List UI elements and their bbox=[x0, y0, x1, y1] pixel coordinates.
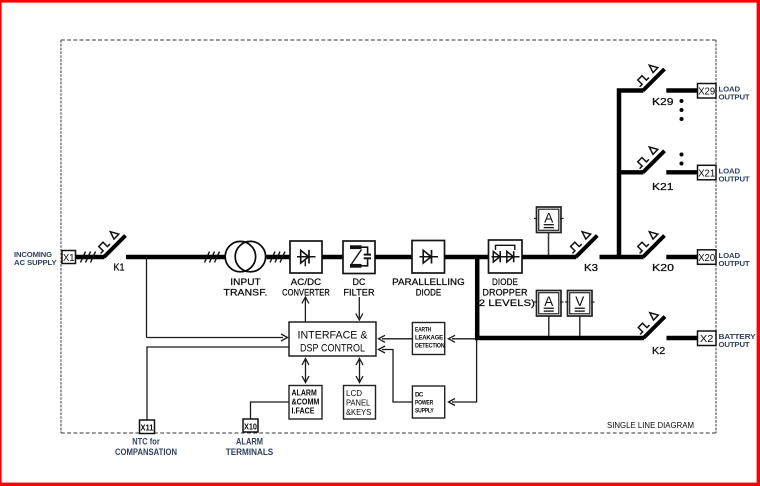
svg-text:K29: K29 bbox=[652, 96, 674, 108]
svg-text:K2: K2 bbox=[652, 345, 665, 357]
transformer T1 bbox=[225, 241, 265, 271]
wire: earth leakage to interface arrow bbox=[382, 338, 412, 340]
terminal X1 bbox=[62, 251, 76, 264]
svg-text:DROPPER: DROPPER bbox=[482, 288, 527, 298]
svg-text:EARTH: EARTH bbox=[415, 327, 432, 334]
svg-text:COMPANSATION: COMPANSATION bbox=[115, 447, 177, 458]
svg-text:X10: X10 bbox=[244, 422, 257, 432]
wire: K2 to X2 bbox=[667, 336, 699, 340]
DC filter box bbox=[343, 241, 375, 274]
svg-text:AC/DC: AC/DC bbox=[291, 277, 322, 287]
vertical load bus bbox=[619, 91, 644, 258]
wire: transformer to AC/DC converter bbox=[267, 255, 291, 259]
breaker K3 bbox=[568, 232, 597, 257]
svg-text:K20: K20 bbox=[652, 262, 674, 274]
svg-text:K3: K3 bbox=[584, 262, 598, 274]
wire: battery line to K2 bbox=[475, 336, 644, 341]
svg-text:INTERFACE &: INTERFACE & bbox=[298, 330, 368, 342]
terminal X11 bbox=[140, 420, 155, 434]
svg-text:OUTPUT: OUTPUT bbox=[719, 259, 751, 268]
parallelling diode box bbox=[412, 241, 445, 274]
wire: dc power supply to interface arrow bbox=[382, 350, 412, 403]
wire: dropper to K3 bbox=[522, 255, 576, 259]
svg-text:LCD: LCD bbox=[346, 388, 362, 398]
ammeter A top bbox=[534, 207, 564, 233]
alarm comm iface box bbox=[289, 386, 322, 420]
svg-text:X2: X2 bbox=[700, 333, 714, 345]
svg-text:X29: X29 bbox=[698, 86, 715, 98]
3-phase marks before transformer bbox=[205, 252, 220, 263]
svg-text:&KEYS: &KEYS bbox=[346, 407, 372, 417]
wire: K21 branch bbox=[617, 170, 644, 174]
voltmeter stem lower bbox=[579, 316, 581, 336]
diode dropper box bbox=[489, 240, 523, 273]
svg-text:OUTPUT: OUTPUT bbox=[719, 174, 751, 183]
dropper diodes and bypass bbox=[492, 245, 520, 262]
svg-text:X1: X1 bbox=[63, 252, 75, 264]
wire: converter control arrow (up) bbox=[304, 299, 306, 323]
ammeter stem lower bbox=[548, 316, 550, 336]
3-phase marks after transformer bbox=[270, 252, 285, 263]
wire: battery tap to earth leakage arrow bbox=[452, 338, 476, 340]
dashed diagram border bbox=[61, 40, 716, 433]
wire: K20 to X20 bbox=[666, 255, 698, 259]
DC filter LC glyph bbox=[350, 245, 371, 267]
breaker K29 bbox=[635, 65, 664, 90]
svg-text:A: A bbox=[544, 211, 553, 226]
svg-text:CONVERTER: CONVERTER bbox=[282, 288, 330, 298]
svg-text:I.FACE: I.FACE bbox=[292, 407, 315, 416]
svg-text:K1: K1 bbox=[114, 262, 125, 274]
terminal X21 bbox=[698, 165, 717, 180]
ammeter A lower bbox=[534, 291, 564, 317]
wire: filter to parallelling diode bbox=[375, 255, 412, 259]
svg-text:POWER: POWER bbox=[415, 400, 434, 407]
svg-text:INPUT: INPUT bbox=[230, 277, 261, 287]
svg-text:PARALLELLING: PARALLELLING bbox=[392, 277, 465, 287]
svg-text:ALARM: ALARM bbox=[236, 437, 263, 448]
ammeter stem top bbox=[548, 233, 550, 255]
voltmeter V lower bbox=[565, 291, 595, 317]
wire: K3 to K20 bbox=[600, 255, 644, 259]
svg-text:(2 LEVELS): (2 LEVELS) bbox=[475, 298, 535, 308]
wire: main AC bus X1 to K1 bbox=[76, 255, 105, 259]
terminal X20 bbox=[698, 250, 717, 264]
svg-text:DIODE: DIODE bbox=[416, 288, 442, 298]
interface / DSP control box bbox=[289, 322, 376, 356]
svg-text:DETECTION: DETECTION bbox=[415, 343, 445, 350]
svg-text:LEAKAGE: LEAKAGE bbox=[415, 335, 443, 342]
svg-text:K21: K21 bbox=[652, 181, 674, 193]
breaker K2 bbox=[636, 313, 665, 338]
wire: interface-LCD double arrow bbox=[356, 359, 363, 383]
svg-text:OUTPUT: OUTPUT bbox=[719, 93, 751, 102]
svg-text:&COMM: &COMM bbox=[292, 398, 320, 407]
3-phase marks after X1 bbox=[81, 252, 96, 263]
diode glyph in parallelling diode bbox=[420, 250, 439, 264]
wire: interface-alarm double arrow bbox=[302, 359, 309, 383]
wire: X11 to interface bbox=[147, 347, 289, 420]
svg-text:AC SUPPLY: AC SUPPLY bbox=[14, 258, 57, 267]
node: control tap junction bbox=[146, 257, 148, 338]
LCD panel box bbox=[344, 386, 376, 420]
svg-text:V: V bbox=[575, 294, 584, 309]
wire: K1 to input transformer bbox=[126, 255, 225, 259]
svg-text:X21: X21 bbox=[698, 167, 715, 179]
svg-text:X11: X11 bbox=[141, 423, 154, 433]
svg-text:TRANSF.: TRANSF. bbox=[224, 288, 268, 298]
dc power supply box bbox=[412, 386, 444, 418]
terminal X10 bbox=[243, 419, 258, 432]
svg-text:ALARM: ALARM bbox=[292, 389, 317, 398]
svg-text:NTC for: NTC for bbox=[132, 437, 160, 448]
svg-text:SUPPLY: SUPPLY bbox=[415, 408, 434, 415]
dots between K29 and K21 bbox=[680, 99, 684, 166]
wire: parallelling diode to dropper bbox=[445, 255, 489, 259]
node: battery branch junction bbox=[475, 257, 480, 340]
AC/DC converter box bbox=[290, 241, 322, 273]
terminal X2 bbox=[698, 331, 717, 346]
wire: K29 to X29 bbox=[666, 88, 698, 92]
wire: filter control arrow (down) bbox=[358, 297, 360, 318]
wire: K21 to X21 bbox=[666, 170, 698, 174]
breaker K1 bbox=[96, 232, 125, 257]
svg-text:TERMINALS: TERMINALS bbox=[226, 447, 274, 458]
earth leakage detection box bbox=[412, 323, 444, 355]
svg-text:DC: DC bbox=[415, 392, 424, 399]
svg-text:DC: DC bbox=[352, 277, 365, 287]
svg-text:DSP CONTROL: DSP CONTROL bbox=[300, 343, 365, 355]
wire: converter to DC filter bbox=[322, 255, 343, 259]
terminal X29 bbox=[698, 84, 717, 99]
wire: alarm box to X10 bbox=[251, 402, 290, 419]
breaker K20 bbox=[635, 232, 664, 257]
diode glyph in converter bbox=[297, 250, 316, 264]
svg-text:PANEL: PANEL bbox=[346, 398, 370, 408]
svg-text:DIODE: DIODE bbox=[492, 277, 518, 287]
breaker K21 bbox=[635, 147, 664, 172]
svg-text:X20: X20 bbox=[698, 252, 715, 264]
wire: battery tap down to dc power supply arrow bbox=[452, 340, 477, 402]
svg-text:OUTPUT: OUTPUT bbox=[719, 340, 751, 349]
svg-text:SINGLE LINE DIAGRAM: SINGLE LINE DIAGRAM bbox=[607, 420, 694, 430]
wire: tap to interface with arrow bbox=[147, 337, 284, 339]
svg-text:FILTER: FILTER bbox=[343, 288, 374, 298]
svg-text:A: A bbox=[544, 294, 553, 309]
